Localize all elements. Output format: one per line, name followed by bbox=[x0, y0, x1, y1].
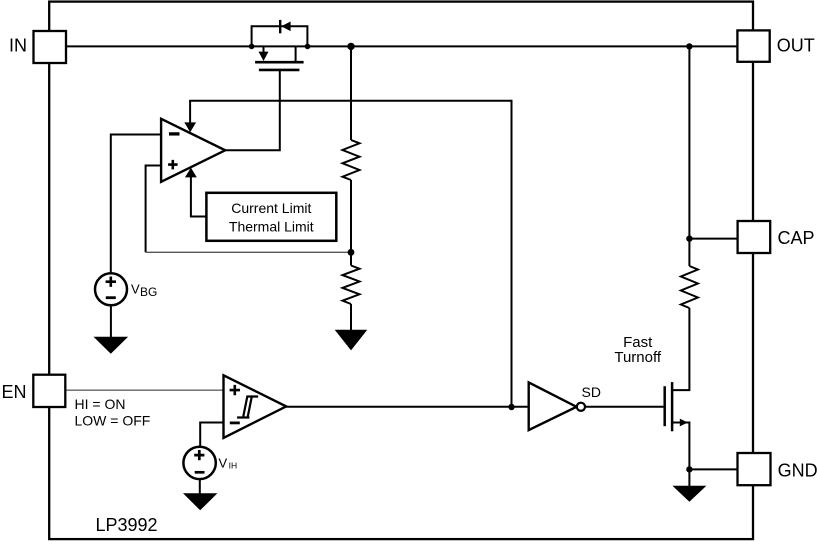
svg-text:GND: GND bbox=[778, 461, 817, 481]
svg-text:V: V bbox=[219, 456, 228, 471]
svg-text:Thermal Limit: Thermal Limit bbox=[229, 219, 314, 235]
svg-text:V: V bbox=[131, 282, 140, 297]
svg-text:CAP: CAP bbox=[778, 228, 815, 248]
svg-text:BG: BG bbox=[140, 285, 157, 299]
svg-text:IN: IN bbox=[9, 35, 27, 55]
svg-text:IH: IH bbox=[229, 460, 238, 470]
svg-text:OUT: OUT bbox=[777, 35, 815, 55]
svg-text:Turnoff: Turnoff bbox=[614, 349, 662, 366]
svg-text:LP3992: LP3992 bbox=[96, 515, 158, 535]
svg-text:Current Limit: Current Limit bbox=[231, 200, 311, 216]
svg-text:SD: SD bbox=[582, 384, 601, 400]
svg-text:LOW = OFF: LOW = OFF bbox=[75, 412, 151, 428]
svg-text:EN: EN bbox=[2, 382, 27, 402]
svg-text:HI = ON: HI = ON bbox=[75, 396, 126, 412]
